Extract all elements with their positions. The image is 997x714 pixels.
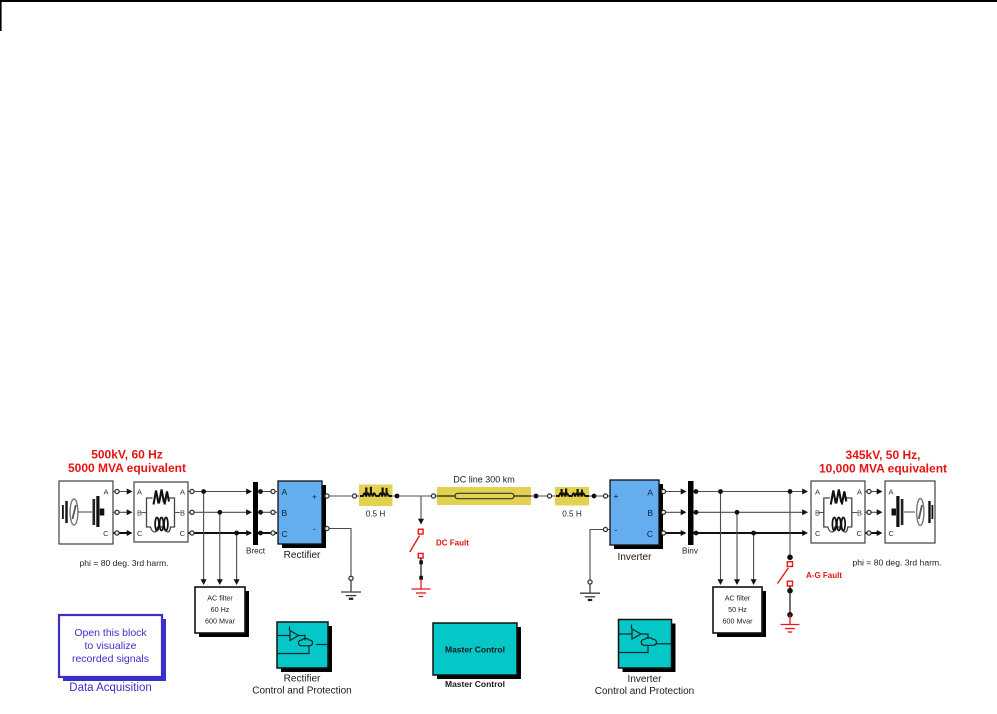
svg-text:Open this block: Open this block bbox=[74, 627, 147, 639]
svg-text:C: C bbox=[103, 529, 109, 538]
svg-text:5000 MVA equivalent: 5000 MVA equivalent bbox=[68, 461, 186, 475]
svg-text:+: + bbox=[312, 492, 317, 502]
svg-text:Inverter: Inverter bbox=[628, 674, 663, 685]
svg-text:A: A bbox=[815, 488, 820, 497]
svg-text:B: B bbox=[282, 508, 288, 518]
svg-text:B: B bbox=[647, 508, 653, 518]
svg-text:A: A bbox=[103, 488, 108, 497]
svg-text:Master Control: Master Control bbox=[445, 679, 505, 689]
svg-text:AC filter: AC filter bbox=[725, 594, 751, 603]
svg-text:C: C bbox=[889, 529, 895, 538]
svg-text:Brect: Brect bbox=[246, 547, 266, 556]
svg-text:60 Hz: 60 Hz bbox=[211, 605, 230, 614]
svg-text:A: A bbox=[137, 488, 142, 497]
svg-text:B: B bbox=[815, 509, 820, 518]
svg-text:phi = 80 deg. 3rd harm.: phi = 80 deg. 3rd harm. bbox=[79, 558, 168, 568]
svg-text:Master Control: Master Control bbox=[445, 645, 505, 655]
svg-text:Binv: Binv bbox=[682, 547, 699, 556]
svg-text:+: + bbox=[614, 491, 619, 501]
svg-text:B: B bbox=[180, 509, 185, 518]
svg-text:C: C bbox=[137, 529, 143, 538]
svg-text:AC filter: AC filter bbox=[207, 594, 233, 603]
svg-text:A: A bbox=[180, 488, 185, 497]
svg-text:A: A bbox=[857, 488, 862, 497]
svg-text:A-G Fault: A-G Fault bbox=[806, 571, 842, 580]
svg-text:Rectifier: Rectifier bbox=[284, 674, 321, 685]
svg-text:B: B bbox=[137, 509, 142, 518]
svg-text:B: B bbox=[857, 509, 862, 518]
svg-text:0.5 H: 0.5 H bbox=[562, 510, 582, 519]
svg-text:C: C bbox=[647, 529, 653, 539]
svg-text:-: - bbox=[615, 525, 618, 535]
svg-text:A: A bbox=[282, 487, 288, 497]
svg-text:C: C bbox=[815, 529, 821, 538]
svg-text:Inverter: Inverter bbox=[618, 552, 653, 563]
svg-text:DC Fault: DC Fault bbox=[436, 539, 469, 548]
svg-text:600 Mvar: 600 Mvar bbox=[723, 617, 754, 626]
svg-text:C: C bbox=[282, 529, 288, 539]
svg-text:DC line 300 km: DC line 300 km bbox=[453, 475, 515, 485]
svg-text:C: C bbox=[857, 529, 863, 538]
svg-text:50 Hz: 50 Hz bbox=[728, 605, 747, 614]
svg-text:C: C bbox=[180, 529, 186, 538]
svg-text:10,000 MVA equivalent: 10,000 MVA equivalent bbox=[819, 462, 947, 476]
svg-text:Data Acquisition: Data Acquisition bbox=[69, 682, 151, 694]
svg-text:Control and Protection: Control and Protection bbox=[595, 686, 695, 697]
svg-text:-: - bbox=[313, 524, 316, 534]
svg-text:A: A bbox=[889, 488, 894, 497]
svg-text:Control and Protection: Control and Protection bbox=[252, 686, 352, 697]
svg-text:A: A bbox=[647, 488, 653, 498]
svg-text:0.5 H: 0.5 H bbox=[366, 510, 386, 519]
svg-text:recorded signals: recorded signals bbox=[72, 653, 149, 665]
svg-text:to visualize: to visualize bbox=[85, 640, 137, 652]
svg-text:Rectifier: Rectifier bbox=[284, 550, 321, 561]
svg-text:500kV, 60 Hz: 500kV, 60 Hz bbox=[91, 448, 163, 462]
svg-text:600 Mvar: 600 Mvar bbox=[205, 617, 236, 626]
svg-text:345kV, 50 Hz,: 345kV, 50 Hz, bbox=[846, 448, 921, 462]
svg-text:phi = 80 deg. 3rd harm.: phi = 80 deg. 3rd harm. bbox=[852, 558, 941, 568]
